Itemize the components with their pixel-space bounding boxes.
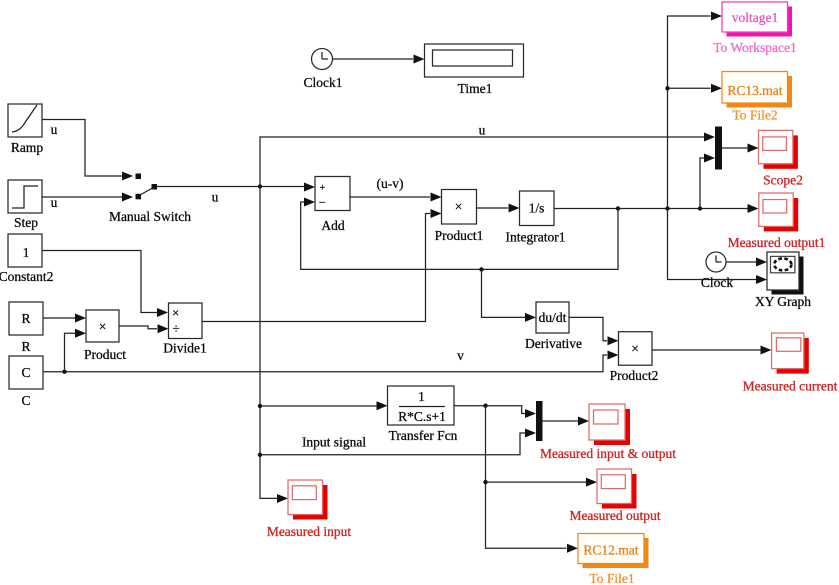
xy-graph block XY Graph [755,252,811,309]
wire Mux1 to Scope2 [722,144,759,153]
svg-text:–: – [319,196,326,208]
wire Constant2 to Divide1 x-input [42,251,168,318]
node junction x=485.5 to Measured output [483,480,487,484]
svg-text:v: v [457,348,464,363]
svg-text:Transfer Fcn: Transfer Fcn [389,428,458,443]
clock block Clock [701,252,733,290]
svg-text:Measured current: Measured current [743,379,838,394]
svg-text:Add: Add [321,218,344,233]
svg-text:Ramp: Ramp [11,140,43,155]
svg-text:RC13.mat: RC13.mat [727,83,782,98]
svg-text:Divide1: Divide1 [163,341,207,356]
node junction v-line x=618 [616,206,620,210]
wire C branch up to Product lower input [65,329,87,372]
to-file block RC12.mat [578,534,649,585]
node junction v-line x=700 [698,206,702,210]
wire Product1 to Integrator1 [477,204,520,213]
wire Clock1 to Time1 [333,55,425,64]
svg-text:(u-v): (u-v) [377,176,404,191]
node junction v-line x=667.5 [665,206,669,210]
wire u: switch output to Add plus input [157,183,315,205]
wire feedback v to Add minus input [301,198,618,270]
scope block Measured input [267,480,352,539]
wire TF output branch down to Measured output and To File1 [486,406,579,553]
wire input signal to Mux2 lower input [260,429,536,455]
to-file block RC13.mat [722,72,792,123]
svg-text:Scope2: Scope2 [763,173,803,188]
svg-text:×: × [455,199,463,214]
derivative block Derivative [525,302,582,351]
wire Product to Divide1 divide-input [119,324,169,333]
svg-text:Time1: Time1 [458,81,493,96]
product block Product1 [435,190,484,244]
sum block Add [315,177,350,234]
svg-text:×: × [99,319,107,334]
integrator block Integrator1 [506,191,566,245]
wire v branch: up to Mux1 lower input [700,154,715,209]
wire v branch: up right column to voltage1 [668,12,723,209]
manual switch Manual Switch [109,174,191,225]
svg-text:R: R [21,339,30,354]
product block Product [84,310,126,362]
wire v branch: down to XY Graph lower input [668,209,768,285]
svg-text:×: × [631,341,639,356]
wire Clock to XY Graph upper input [726,258,767,267]
svg-text:R*C.s+1: R*C.s+1 [398,409,446,424]
clock block Clock1 [304,49,343,91]
wire Divide1 output to Product1 lower input [202,209,442,322]
svg-text:Product: Product [84,347,126,362]
svg-text:Clock1: Clock1 [304,75,343,90]
svg-text:Product1: Product1 [435,228,484,243]
node junction u vertical to input-signal line [258,453,262,457]
wire u branch to Transfer Fcn input [260,401,388,410]
wire Derivative output to Product2 upper input [569,317,619,345]
svg-text:Measured output1: Measured output1 [728,235,826,250]
constant block C [9,356,43,408]
wire v branch down to Derivative input [482,269,537,322]
wire u branch: main vertical down to Measured input [260,187,288,504]
node junction right column to RC13 [665,86,669,90]
product block Product2 [610,332,659,383]
wire Product2 output to Measured current [652,346,772,355]
wire R to Product upper input [43,314,86,323]
scope block Measured input & output [540,404,676,461]
scope block Measured output [569,469,660,523]
svg-text:To File1: To File1 [589,571,634,585]
svg-text:Constant2: Constant2 [0,269,53,284]
mux block Mux1 [715,127,722,170]
svg-text:u: u [479,123,486,138]
constant block R [9,302,43,354]
wire branch to Measured output [486,478,598,487]
svg-text:Derivative: Derivative [525,336,582,351]
wire Mux2 to Measured input & output [543,417,590,426]
node junction TF output x=485.5 [483,404,487,408]
svg-text:voltage1: voltage1 [732,10,779,25]
wire Add output (u-v) to Product1 upper input [350,176,442,202]
scope block Scope2 [759,130,803,187]
wire u branch: up and right along top to Mux1 upper input [260,123,715,187]
svg-text:1/s: 1/s [529,201,545,216]
wire C long line to Product2 lower input [43,348,619,372]
step source block Step [8,180,58,230]
node junction C-line at x=64.5 [62,370,66,374]
wire Ramp to switch upper input [42,120,133,181]
svg-text:Measured input & output: Measured input & output [540,446,676,461]
node junction u-line at x=260 [258,184,262,188]
ramp source block Ramp [8,104,58,155]
svg-text:Clock: Clock [701,275,733,290]
svg-text:C: C [21,393,30,408]
transfer-function block Transfer Fcn [388,386,458,443]
display block Time1 [425,44,524,96]
scope block Measured current [743,333,838,394]
svg-text:×: × [172,305,179,320]
to-workspace block voltage1 [713,2,797,55]
svg-text:To Workspace1: To Workspace1 [713,40,797,55]
node junction feedback x=481.5 [479,267,483,271]
svg-text:Measured input: Measured input [267,524,352,539]
svg-text:du/dt: du/dt [539,310,567,325]
svg-text:RC12.mat: RC12.mat [583,543,638,558]
svg-text:C: C [21,365,30,380]
svg-text:Measured output: Measured output [569,508,660,523]
svg-text:To File2: To File2 [732,108,777,123]
svg-text:Product2: Product2 [610,368,659,383]
mux block Mux2 [536,401,543,441]
wire Step to switch lower input [42,193,133,202]
wire Transfer Fcn output to Mux2 upper input [454,406,536,418]
svg-text:+: + [320,183,326,194]
svg-text:Input signal: Input signal [302,435,366,450]
constant block Constant2 [0,234,53,284]
svg-text:u: u [51,122,58,137]
svg-text:Manual Switch: Manual Switch [109,209,191,224]
scope block Measured output1 [728,193,826,250]
node junction u vertical to Transfer Fcn [258,404,262,408]
svg-text:1: 1 [23,245,30,260]
svg-text:Integrator1: Integrator1 [506,230,566,245]
svg-text:XY Graph: XY Graph [755,294,811,309]
svg-text:1: 1 [418,389,425,404]
svg-text:÷: ÷ [173,321,180,336]
wire branch to To File2 [668,84,723,93]
divide block Divide1 [163,303,207,356]
svg-text:Step: Step [14,215,38,230]
wire v: Integrator1 output to Measured output1 [554,204,759,213]
svg-text:u: u [212,190,219,205]
svg-text:R: R [21,311,30,326]
